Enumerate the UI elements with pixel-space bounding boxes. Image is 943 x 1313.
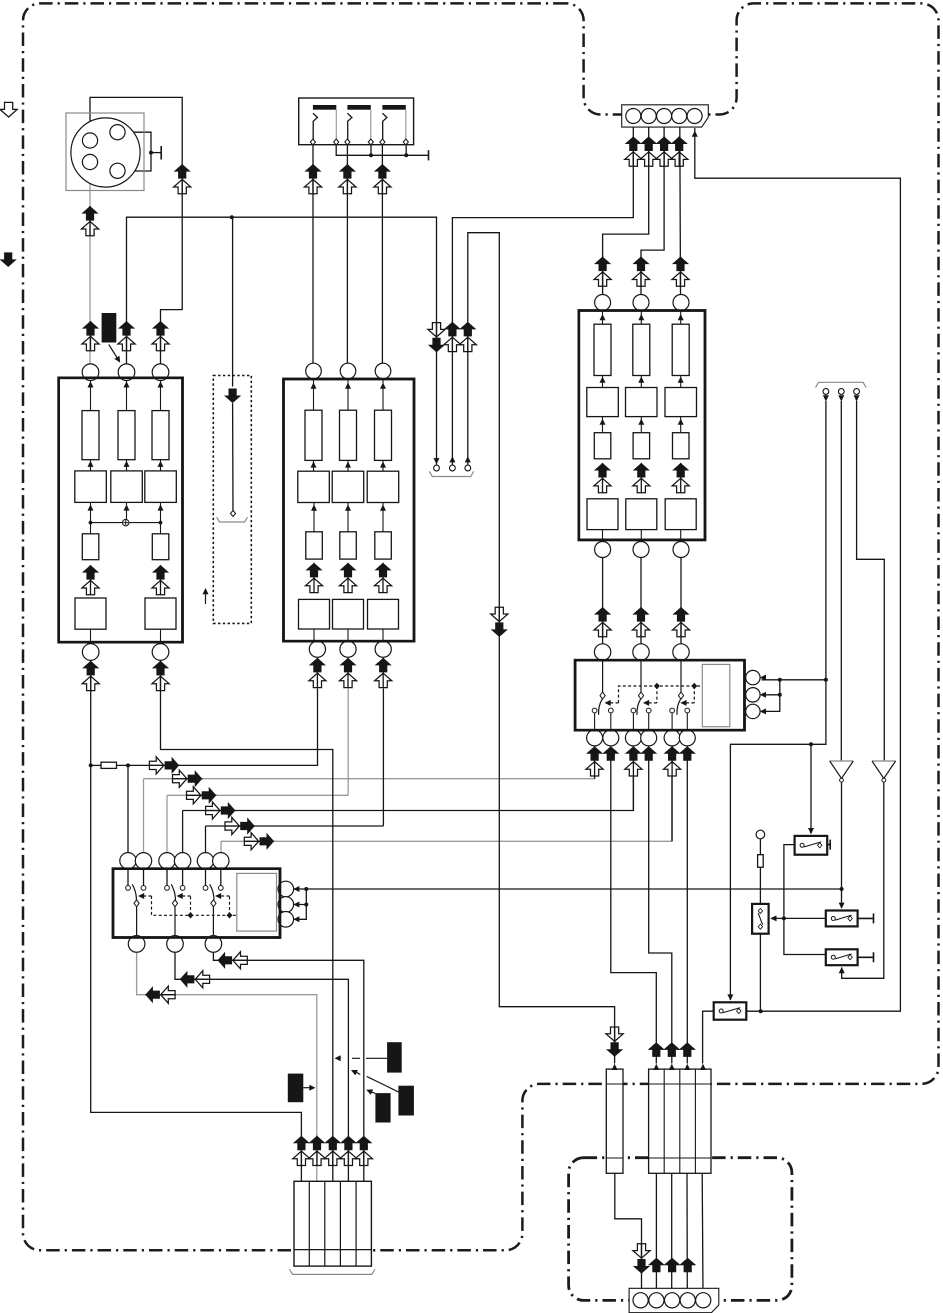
arrow pair (up)	[339, 164, 356, 194]
wire (to S6 arrow)	[771, 917, 784, 919]
wire (CN2 pin2 to block C in1)	[603, 124, 649, 296]
connector CN6 pin 3	[665, 1293, 680, 1308]
wire (fader strip to CN6 pin1)	[615, 1173, 642, 1293]
junction	[89, 763, 93, 767]
node K1 in5	[197, 853, 213, 869]
wire (select row2 riser, gray)	[143, 779, 145, 853]
arrowhead (power)	[854, 395, 860, 401]
wire (K1 out2 to CN5 pin4)	[175, 952, 348, 1181]
junction	[840, 887, 844, 891]
arrowhead (into sp1)	[434, 458, 440, 464]
wire (terminal to R2)	[759, 839, 761, 855]
wire (strip to CN6 pin3)	[671, 1173, 673, 1293]
arrow pair (up)	[672, 607, 689, 637]
switch S5	[714, 1002, 747, 1019]
arrow pair (U3)	[594, 463, 611, 493]
switch block S1	[299, 98, 414, 145]
wire (S1c to block B in3)	[381, 142, 383, 364]
node K2 out6	[679, 730, 695, 746]
terminal power2	[838, 389, 844, 395]
connector CN1 (DIN jack)	[66, 113, 144, 191]
arrowhead (into S3)	[839, 903, 845, 909]
arrow pair (up)	[594, 607, 611, 637]
bracket (power feeds)	[816, 382, 867, 387]
arrow pair (up)	[632, 607, 649, 637]
junction	[824, 678, 828, 682]
arrow pair (up)	[375, 658, 392, 688]
arrow pair (right)	[186, 787, 216, 804]
node K2 coil pin2	[746, 688, 760, 702]
wire (stub to terminator)	[151, 152, 161, 154]
arrow pair (up)	[82, 321, 99, 351]
arrow pair (down)	[491, 607, 508, 637]
wire (strip to CN6 pin4)	[686, 1173, 688, 1293]
arrow pair (up)	[340, 1136, 357, 1166]
wire (K2 to block C ch1)	[602, 558, 604, 646]
wire (K2 out4 to strip in2)	[649, 761, 672, 1064]
wire (DIN pin1 loop to A in3)	[90, 97, 182, 364]
relay K2 border	[575, 660, 744, 730]
arrow pair (up)	[118, 321, 135, 351]
node U2 out2	[340, 641, 356, 657]
block U1 internals	[75, 502, 176, 643]
amplifier block U3	[579, 311, 705, 540]
bracket (CN5)	[290, 1269, 375, 1274]
wire (to muting unit)	[231, 217, 234, 386]
node K1 out1	[128, 936, 145, 953]
arrow pair (up)	[594, 257, 611, 287]
wire (S2 to S4)	[784, 845, 826, 955]
relay K1 switches	[126, 870, 224, 936]
node K2 out4	[641, 730, 657, 746]
wire	[671, 776, 673, 841]
arrowhead (power)	[823, 395, 829, 401]
arrow pair (down)	[633, 1244, 650, 1274]
leader (L1)	[109, 345, 119, 361]
wire (power2 to buffer T1)	[840, 401, 842, 761]
arrow pair (up)	[671, 136, 688, 166]
arrow pair (up)	[152, 661, 169, 691]
leader (L5)	[356, 1072, 398, 1092]
wire (K2 to block C ch2)	[640, 558, 642, 646]
junction	[778, 678, 782, 682]
junction	[304, 887, 308, 891]
wire (K2 to block C ch3)	[680, 558, 682, 646]
node K1 in1	[120, 853, 136, 869]
node U3 out3	[673, 542, 689, 558]
connector CN6	[629, 1288, 719, 1312]
wire (DIN pin2 to pin3)	[126, 132, 152, 171]
arrowhead (relay control)	[138, 893, 144, 899]
black arrow (CN6 feed)	[648, 1258, 665, 1273]
wire (power1 to K2 coil)	[762, 680, 826, 712]
node K2 in3	[673, 644, 689, 660]
junction	[304, 903, 308, 907]
wire (S6 to S5 net)	[759, 934, 761, 1012]
wire (relay K1 out1 to CN5 pin2, gray)	[137, 952, 317, 1181]
arrowhead (coil feed)	[760, 708, 766, 714]
wire (select row5 riser)	[205, 826, 207, 853]
wire	[632, 776, 634, 811]
junction	[149, 151, 153, 155]
node K1 in4	[174, 853, 190, 869]
terminal sp3	[465, 465, 471, 471]
arrow pair (left)	[218, 952, 248, 969]
connector CN2 pin 2	[641, 109, 656, 124]
junction	[759, 1009, 763, 1013]
node U1 out1	[82, 644, 99, 661]
arrowhead (coil feed)	[760, 675, 766, 681]
relay K2 switches	[592, 661, 690, 730]
terminator (S2)	[827, 840, 830, 850]
terminal sp1	[434, 465, 440, 471]
terminal sp2	[450, 465, 456, 471]
node K1 coil pin3	[278, 912, 294, 928]
arrow pair (up)	[339, 658, 356, 688]
arrow pair (U1 ch2)	[152, 565, 169, 595]
terminal	[310, 139, 315, 145]
arrow pair (U2)	[305, 563, 322, 593]
label box L5	[398, 1086, 414, 1116]
node K2 in1	[594, 644, 610, 660]
wire (block B ch2 out, gray)	[347, 689, 349, 796]
connector CN2 pin 1	[626, 109, 641, 124]
black arrow (page flow)	[0, 252, 17, 267]
terminator (DIN stub)	[160, 146, 162, 160]
junction	[126, 763, 130, 767]
wire (R2 to S6)	[759, 867, 761, 904]
terminal	[380, 139, 385, 145]
black arrow (mute signal)	[224, 389, 241, 404]
black arrow (strip feed)	[648, 1042, 665, 1057]
wire (select row6, gray)	[221, 777, 672, 841]
node U3 out1	[595, 542, 611, 558]
arrow pair (up)	[640, 136, 657, 166]
junction	[369, 153, 373, 157]
junction	[809, 742, 813, 746]
wire (inside muting unit)	[232, 403, 234, 511]
wire (select row6 riser, gray)	[220, 841, 222, 853]
arrow pair (up)	[174, 164, 191, 194]
arrow pair (U3)	[633, 463, 650, 493]
arrow (feedback)	[205, 590, 207, 604]
connector CN2 pin 3	[657, 109, 672, 124]
junction	[782, 916, 786, 920]
wire (power1 to S5)	[730, 401, 826, 1000]
black arrow (strip feed)	[663, 1042, 680, 1057]
node U2 in2	[340, 363, 356, 379]
black arrow (CN6 feed)	[664, 1258, 681, 1273]
block U2 border	[284, 379, 415, 641]
harness boundary (bottom-right dash-dot)	[569, 1158, 792, 1301]
arrowhead (into S5)	[727, 994, 733, 1000]
switch S4	[826, 949, 858, 965]
wire (select row4)	[183, 777, 634, 811]
node K2 in2	[633, 644, 649, 660]
resistor R1	[101, 762, 117, 768]
wire (select row4 riser)	[182, 811, 184, 854]
wire (S1a to block B in1)	[312, 142, 314, 364]
leader (L4)	[370, 1091, 376, 1093]
terminal	[334, 139, 339, 145]
wire (select row2, gray)	[144, 776, 595, 779]
connector CN6 pin 5	[696, 1293, 711, 1308]
label box (blacked out) L1	[102, 313, 117, 343]
wire (R1 to block B in, select row1)	[117, 689, 318, 766]
node K1 in2	[135, 853, 151, 869]
white arrow (page flow)	[0, 102, 17, 117]
amplifier block U1	[59, 378, 183, 642]
block U1 border	[59, 378, 183, 642]
terminator (S3)	[858, 913, 874, 923]
arrowhead (relay control)	[680, 700, 686, 706]
node K2 out2	[603, 730, 619, 746]
terminal (diamond)	[230, 511, 235, 517]
relay K1 control (dashed)	[152, 896, 237, 915]
wire (CN2 pin4 to block C in3)	[679, 124, 682, 296]
wire (K1 coil in2)	[294, 889, 306, 905]
wire (DIN pin4 to preamp A in1, gray)	[89, 170, 91, 364]
black arrow (strip feed)	[679, 1042, 696, 1057]
node U2 in3	[375, 363, 391, 379]
wire (S1 common bus)	[336, 109, 428, 155]
arrow pair (up)	[625, 746, 642, 776]
arrow pair (right)	[225, 817, 255, 834]
leader (L3)	[303, 1087, 313, 1089]
arrow pair (up)	[304, 164, 321, 194]
terminator (S1 bus)	[428, 150, 430, 160]
black arrow (up)	[679, 746, 696, 761]
wire (K2 coil in2)	[762, 694, 780, 696]
arrowhead (coil feed)	[293, 902, 299, 908]
connector CN2 pin 4	[672, 109, 687, 124]
arrow pair (up)	[444, 322, 461, 352]
arrow pair (up)	[309, 658, 326, 688]
junction	[778, 693, 782, 697]
arrowhead (coil feed)	[293, 916, 299, 922]
black arrow (up)	[640, 746, 657, 761]
node U3 out2	[633, 542, 649, 558]
arrow pair (up)	[152, 321, 169, 351]
terminal (antenna)	[756, 830, 765, 839]
wire (S5 to strip in4)	[703, 1011, 714, 1063]
node K2 coil pin1	[746, 670, 760, 684]
arrow pair (up)	[355, 1136, 372, 1166]
node K1 out2	[167, 936, 184, 953]
arrow pair (up)	[374, 164, 391, 194]
wire (S1b to bus)	[370, 142, 372, 155]
node U3 in3	[673, 295, 689, 311]
arrow pair (up)	[324, 1136, 341, 1166]
arrowhead (from sp2)	[449, 456, 455, 462]
wire	[594, 776, 596, 779]
wire (terminal3 to fader strip)	[468, 233, 615, 1064]
wire (K2 out6 to strip in3)	[686, 761, 688, 1064]
node K1 in3	[159, 853, 175, 869]
switch S2	[795, 836, 828, 855]
wire (select row3 riser, gray)	[166, 795, 168, 853]
wire (select row5)	[206, 825, 384, 827]
arrow pair (right)	[172, 770, 202, 787]
wire (CN2 pin1 to terminal2)	[452, 124, 633, 465]
arrow pair (up)	[625, 136, 642, 166]
muting unit (dashed)	[213, 376, 251, 624]
node K1 coil pin1	[278, 881, 294, 897]
block U3 border	[579, 311, 705, 540]
wire (T2 out to S4)	[842, 782, 884, 978]
terminal power1	[823, 389, 829, 395]
switch S3	[826, 911, 858, 927]
arrow pair (up)	[459, 322, 476, 352]
arrowhead (into strip)	[653, 1064, 659, 1070]
relay unit K2	[575, 660, 744, 730]
label box L2	[387, 1042, 402, 1072]
wire (T1 out to S3)	[841, 782, 843, 908]
connector CN6 pin 1	[633, 1293, 648, 1308]
arrowhead (into S2)	[808, 828, 814, 834]
label box L3	[288, 1074, 304, 1103]
wire (K2 out2 to strip in1)	[611, 761, 657, 1064]
arrow pair (up)	[632, 257, 649, 287]
arrowhead (coil feed)	[293, 886, 299, 892]
leader (L2, dashed)	[352, 1057, 387, 1059]
arrowhead (into strip)	[700, 1064, 706, 1070]
wire (to resistor R1)	[91, 764, 101, 766]
terminator (S4)	[858, 952, 874, 962]
relay unit K1	[113, 869, 280, 938]
arrow pair (left)	[180, 971, 210, 988]
connector CN2	[622, 105, 709, 127]
arrow pair (U2)	[339, 563, 356, 593]
arrow pair (up)	[672, 257, 689, 287]
arrow pair (right)	[149, 757, 179, 774]
wire (power3 to buffer T2)	[857, 401, 885, 761]
node U3 in2	[633, 295, 649, 311]
arrowhead (relay control)	[215, 893, 221, 899]
wire (CN2 pin3 to block C in2)	[641, 124, 664, 296]
node K2 out5	[664, 730, 680, 746]
arrow pair (right)	[205, 802, 235, 819]
relay K2 control (dashed)	[619, 686, 703, 703]
switch S6	[752, 904, 769, 934]
bracket (muting)	[217, 517, 248, 522]
node U2 out3	[375, 641, 391, 657]
wire (A out2 to CN5 pin3)	[161, 661, 333, 1182]
node K1 in6	[213, 853, 229, 869]
arrow pair (U2)	[374, 563, 391, 593]
node U2 out1	[309, 641, 325, 657]
relay coil K2	[702, 664, 730, 726]
node K1 out3	[205, 936, 222, 953]
bracket (speaker terminals)	[429, 471, 473, 476]
arrowhead (into CN2 pin5)	[692, 131, 698, 137]
label box L4	[375, 1093, 390, 1122]
arrowhead (power)	[838, 395, 844, 401]
node K2 out1	[587, 730, 603, 746]
terminal	[345, 139, 350, 145]
arrow pair (up)	[81, 206, 98, 236]
node U1 in3	[152, 364, 169, 381]
node K2 out3	[625, 730, 641, 746]
wire (strip to CN6 pin5)	[701, 1173, 704, 1293]
arrowhead (into S4)	[839, 967, 845, 973]
arrow pair (left)	[145, 986, 175, 1003]
arrow pair (U3)	[672, 463, 689, 493]
wire (K1 coil in1)	[294, 888, 306, 890]
arrow pair (up)	[664, 746, 681, 776]
terminal	[368, 139, 373, 145]
node U1 in1	[82, 364, 99, 381]
resistor R2	[758, 855, 764, 868]
connector strip (main)	[649, 1069, 711, 1173]
connector CN2 pin 5	[687, 109, 702, 124]
node U3 in1	[595, 295, 611, 311]
junction	[404, 153, 408, 157]
wire (strip to CN6 pin2)	[655, 1173, 657, 1293]
buffer T2	[872, 761, 896, 778]
wire (S1c to bus)	[405, 141, 407, 155]
wire (S1b to block B in2)	[346, 142, 348, 364]
arrowhead (relay control)	[643, 700, 649, 706]
wire (block B ch3 out)	[382, 689, 384, 827]
black arrow (CN6 feed)	[679, 1258, 696, 1273]
connector CN5	[294, 1181, 371, 1266]
buffer T1	[830, 761, 854, 778]
arrowhead (into strip)	[669, 1064, 675, 1070]
node U1 in2	[118, 364, 135, 381]
connector CN6 pin 4	[680, 1293, 695, 1308]
arrowhead (from sp3)	[465, 456, 471, 462]
arrow pair (U1 ch1)	[82, 565, 99, 595]
connector CN6 pin 2	[649, 1293, 664, 1308]
block U2 internals	[299, 503, 399, 644]
arrow pair (down)	[428, 322, 445, 352]
node K1 coil pin2	[278, 897, 294, 913]
arrowhead (into strip)	[684, 1064, 690, 1070]
wire (A in2 / speaker feed)	[127, 217, 437, 464]
wire (to S3)	[784, 917, 826, 919]
arrow pair (up)	[586, 746, 603, 776]
arrow pair (up)	[308, 1136, 325, 1166]
wire (select row3, gray)	[167, 794, 348, 796]
terminal	[403, 139, 408, 145]
arrowhead (relay control)	[605, 700, 611, 706]
relay coil K1	[237, 873, 277, 931]
node K2 coil pin3	[746, 704, 760, 718]
wire (K2 coil in1)	[762, 679, 780, 681]
arrow pair (up)	[293, 1136, 310, 1166]
wire (K1 out3 to CN5 pin5)	[213, 952, 363, 1181]
connector strip (fader)	[606, 1069, 623, 1173]
arrowhead (into S6)	[770, 915, 776, 921]
arrowhead (into strip)	[612, 1064, 618, 1070]
wire (A out1 to CN5 pin1)	[91, 661, 302, 1182]
wire (row1 tap to relay K1)	[127, 765, 129, 853]
junction	[230, 215, 234, 219]
terminal power3	[854, 389, 860, 395]
wire (power1 branch to S2)	[810, 744, 812, 833]
arrow pair (up)	[656, 136, 673, 166]
wire (K1 coil in3)	[294, 905, 306, 920]
relay K1 border	[113, 869, 280, 938]
arrowhead (relay control)	[177, 893, 183, 899]
arrow pair (up)	[82, 661, 99, 691]
black arrow (up)	[602, 746, 619, 761]
arrow pair (right)	[244, 833, 274, 850]
node U1 out2	[152, 644, 169, 661]
node U2 in1	[306, 363, 322, 379]
arrow pair (down)	[606, 1027, 623, 1057]
